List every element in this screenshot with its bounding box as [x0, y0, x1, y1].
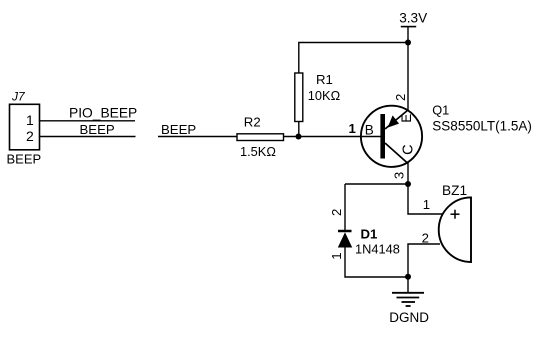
junction node collector — [405, 181, 411, 187]
diode D1 — [338, 231, 352, 248]
power symbol 3.3V — [401, 27, 416, 43]
junction node 3.3V rail — [405, 40, 411, 46]
wire net BEEP — [158, 136, 237, 138]
svg-text:3.3V: 3.3V — [399, 10, 427, 25]
svg-text:1N4148: 1N4148 — [355, 242, 400, 257]
svg-text:R1: R1 — [316, 72, 333, 87]
wire J7 pin 2 — [40, 136, 136, 138]
wire emitter vertical — [407, 43, 409, 111]
wire D1 anode to ground rail — [345, 248, 408, 278]
wire collector to D1 — [345, 183, 408, 185]
svg-text:2: 2 — [329, 209, 344, 216]
wire buzzer pin 2 — [408, 244, 440, 277]
svg-text:B: B — [365, 123, 374, 138]
svg-text:2: 2 — [422, 230, 429, 245]
junction node ground rail — [405, 274, 411, 280]
Q1 emitter arrow — [388, 115, 399, 127]
wire collector vertical — [407, 163, 409, 185]
junction node R1-R2 — [296, 134, 302, 140]
transistor Q1 body — [361, 106, 422, 167]
wire buzzer pin 1 — [408, 184, 443, 214]
svg-text:Q1: Q1 — [432, 103, 449, 118]
svg-text:BEEP: BEEP — [161, 122, 196, 137]
wire ground stem — [407, 277, 409, 293]
svg-text:3: 3 — [392, 172, 407, 179]
BZ1 plus sign — [451, 210, 460, 219]
buzzer BZ1 — [439, 197, 471, 262]
Q1 base bar — [380, 114, 385, 159]
Q1 collector segment — [385, 143, 408, 164]
svg-text:C: C — [401, 144, 417, 154]
svg-text:1: 1 — [423, 197, 430, 212]
wire R1 bottom — [298, 122, 300, 137]
svg-text:R2: R2 — [244, 115, 261, 130]
svg-text:BEEP: BEEP — [80, 122, 115, 137]
wire D1 cathode — [344, 184, 346, 231]
ground symbol DGND — [392, 293, 424, 306]
svg-text:1: 1 — [349, 121, 356, 136]
svg-text:1.5KΩ: 1.5KΩ — [240, 144, 276, 159]
svg-text:2: 2 — [26, 128, 34, 144]
connector J7 — [10, 104, 40, 150]
svg-text:10KΩ: 10KΩ — [308, 88, 341, 103]
svg-text:2: 2 — [393, 94, 408, 101]
resistor R2 — [237, 134, 284, 141]
wire R1 top to 3.3V rail — [299, 43, 408, 74]
svg-text:1: 1 — [329, 252, 344, 259]
Q1 emitter segment — [385, 110, 408, 129]
svg-text:BEEP: BEEP — [7, 152, 42, 167]
svg-text:PIO_BEEP: PIO_BEEP — [69, 106, 137, 121]
wire R2 to Q1 base — [284, 136, 382, 138]
svg-text:BZ1: BZ1 — [442, 183, 467, 198]
resistor R1 — [295, 73, 303, 122]
svg-text:J7: J7 — [11, 90, 26, 104]
svg-text:E: E — [399, 114, 414, 123]
wire J7 pin 1 — [40, 120, 136, 122]
svg-text:1: 1 — [26, 112, 34, 128]
svg-text:SS8550LT(1.5A): SS8550LT(1.5A) — [432, 119, 532, 134]
svg-text:DGND: DGND — [389, 310, 429, 325]
svg-text:D1: D1 — [361, 227, 378, 242]
